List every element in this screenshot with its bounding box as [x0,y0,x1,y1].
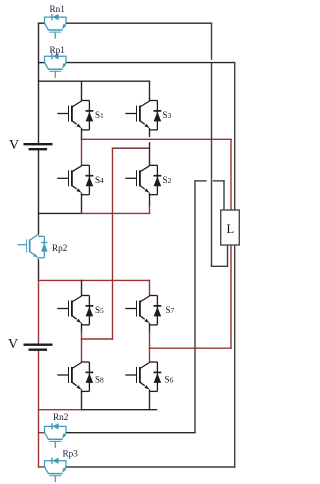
wire: S2 emitter upper black part [149,195,151,206]
svg-text:S6: S6 [165,375,174,385]
transistor S4 [57,165,93,194]
transistor S7 [125,296,161,325]
wire: top rail left stub to Rn1 [39,22,45,24]
wire: Rn2 left stub [39,432,45,434]
switch Rp3 [44,458,67,483]
svg-text:Rp1: Rp1 [50,45,66,55]
wire: S1 collector drop [81,81,83,100]
svg-text:S5: S5 [95,305,104,315]
wire: bridge2 bottom rail red part [39,409,82,411]
wire: red link S1/S4 node to S4 collector [81,139,83,165]
wire: top rail from Rn1 right to right-side vertical [66,22,212,24]
svg-text:L: L [227,222,235,236]
inductor L box [221,210,240,245]
svg-text:S7: S7 [166,305,175,315]
battery V2 [24,345,53,350]
wire: S6 collector red [149,348,151,362]
wire: S3 emitter stub above crossover gap [149,130,151,136]
wire: S2 collector below crossover gap [149,143,151,165]
wire: far right vertical from Rp1 rail down to bottom rail [234,63,236,467]
svg-text:S1: S1 [95,110,104,120]
wire: left vertical red from battery2 to bottom [38,350,40,467]
switch Rn1 (blue bidirectional) [44,14,67,39]
transistor S5 [57,296,93,325]
wire: Rp1 right rail to far right vertical [66,62,235,64]
wire: bridge2 bottom rail black part [82,409,157,411]
wire: bridge1 top rail [39,80,150,82]
wire: S4 emitter down to bottom rail [81,195,83,214]
wire: S3 collector drop [149,81,151,100]
transistor S3 [125,101,161,130]
wire: S6 emitter to bottom rail [149,391,151,409]
svg-text:S4: S4 [95,175,104,185]
svg-text:Rp3: Rp3 [63,449,79,459]
wire: left vertical red from bridge2 junction to battery2 [38,280,40,344]
wire: red right vertical down to bridge2 output [230,139,232,348]
wire: right vertical lower piece down to load bottom elbow [211,64,213,267]
wire: bridge2 left mid red link [82,338,113,340]
wire: S5 emitter red part to left mid link [81,331,83,339]
wire: Rp1 left stub [39,62,45,64]
wire: Rp3 left stub [39,466,45,468]
wire: red mid rail from S1/S4 node to right red vertical [82,138,232,140]
svg-text:Rn2: Rn2 [53,412,69,422]
wire: S1 emitter to mid junction [81,130,83,139]
svg-text:S2: S2 [163,175,172,185]
svg-text:Rn1: Rn1 [50,4,66,14]
wire: load top link right part to L riser [214,180,225,182]
battery V1 [24,144,53,149]
transistor Rp2 (blue IGBT on left rail) [18,235,48,261]
svg-text:Rp2: Rp2 [52,243,68,253]
switch Rn2 [44,423,67,448]
wire: load bottom elbow [212,245,228,267]
wire: red part of bridge1 bottom rail [82,212,150,214]
wire: bridge2 right mid red link to red vertical [150,347,232,349]
wire: right vertical from top rail (upper piece above Rp1 rail crossover) [211,23,213,59]
transistor S6 [125,362,161,391]
wire: S7 emitter red part to output junction [149,331,151,348]
wire: riser into L box top [223,181,225,211]
wire: bridge1 bottom rail black part [39,212,82,214]
wire: vertical from Rn2 rail up to load top link [194,181,196,433]
wire: S2 emitter red lower part [149,206,151,213]
wire: S5 collector drop [81,280,83,295]
wire: bridge2 top rail red [39,279,150,281]
wire: S7 emitter black part [149,325,151,331]
wire: S8 collector red [81,339,83,362]
wire: left vertical Rp2 to bridge2 junction [38,260,40,280]
wire: bottom rail from Rp3 to far right vertical [66,466,235,468]
wire: red mid vertical down to bridge2 left mid link [112,148,114,339]
wire: S5 emitter black part [81,325,83,331]
transistor S8 [57,362,93,391]
transistor S1 [57,101,93,130]
transistor S2 [125,165,161,194]
wire: S7 collector drop red [149,280,151,295]
wire: load top link left part [195,180,206,182]
wire: dark link S3/S2 node to mid vertical [113,147,150,149]
svg-text:V: V [9,138,19,153]
wire: Rn2 right rail [66,432,195,434]
wire: left main vertical (top rail to battery1) [38,23,40,144]
wire: S8 emitter to bottom rail [81,391,83,409]
wire: left vertical battery1 to Rp2 [38,149,40,234]
svg-text:S3: S3 [163,110,172,120]
svg-text:V: V [8,337,18,352]
switch Rp1 [44,53,67,78]
svg-text:S8: S8 [95,375,104,385]
